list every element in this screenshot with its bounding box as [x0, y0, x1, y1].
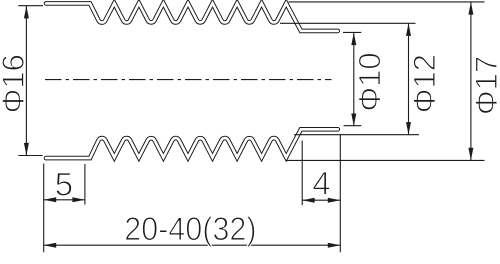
- dimension 20-40(32): [44, 244, 341, 246]
- dimension Phi12: [280, 22, 416, 24]
- dimension 4: [301, 141, 303, 206]
- dimension Phi17: [289, 1, 485, 3]
- dimension Phi16: [18, 5, 43, 7]
- centerline axis: [45, 79, 332, 81]
- dimension 5: [43, 164, 45, 253]
- corrugated tube top wall (plain end, bellows, right neck): [46, 3, 338, 31]
- corrugated tube bottom wall (plain end, bellows, right neck): [46, 129, 338, 158]
- dimension Phi10: [343, 31, 361, 33]
